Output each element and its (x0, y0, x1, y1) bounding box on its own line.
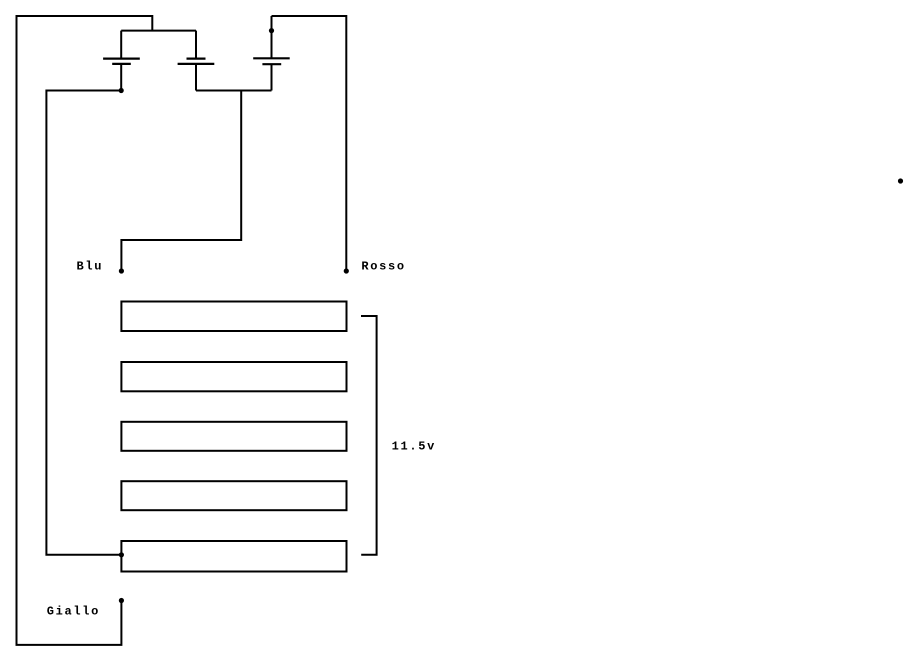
battery BT1 (103, 31, 140, 91)
wire: top-right bus (272, 15, 347, 17)
wire: bottom run up to Giallo terminal (16, 601, 122, 645)
resistor R5 (121, 541, 346, 572)
wire: top-left bus with drop to battery bus (17, 16, 153, 31)
bracket: 11.5v measurement (361, 316, 377, 555)
svg-text:Giallo: Giallo (47, 605, 100, 619)
node: isolated dot right side (898, 178, 903, 183)
node: Blu terminal (119, 268, 124, 273)
wire: bottom bus BT2-BT3 (196, 90, 272, 92)
resistor R3 (121, 422, 346, 451)
node: Rosso terminal (344, 268, 349, 273)
node: junction BT1 minus (119, 88, 124, 93)
resistor R2 (121, 362, 346, 391)
svg-text:11.5v: 11.5v (392, 440, 436, 454)
wire: battery top bus BT1-BT2 (121, 30, 196, 32)
wire: BT1 minus to inner-left rail down to R5 (46, 91, 121, 555)
svg-text:Blu: Blu (77, 259, 104, 273)
wire: mid bus down to Blu terminal (121, 91, 241, 272)
node: junction at R5 left (119, 552, 124, 557)
wire: Rosso rail (345, 15, 347, 271)
battery BT2 (178, 31, 215, 91)
svg-text:Rosso: Rosso (361, 259, 405, 273)
wire: outer left rail (16, 15, 18, 645)
battery BT3 (253, 16, 290, 91)
node: Giallo terminal (119, 598, 124, 603)
resistor R4 (121, 481, 346, 510)
node: junction on BT3 top lead (269, 28, 274, 33)
resistor R1 (121, 302, 346, 332)
